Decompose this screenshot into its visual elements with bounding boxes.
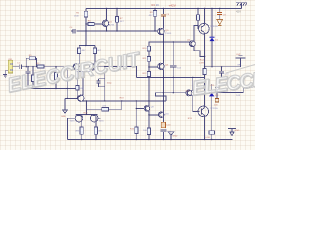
- output terminal bar: [235, 56, 245, 67]
- thermistor R21 below x217: [216, 92, 218, 98]
- transistor Q11 feedback: [78, 95, 84, 101]
- svg-text:10K: 10K: [143, 130, 147, 132]
- resistor R12: [147, 71, 150, 76]
- capacitor C4 stub left of x86: [71, 29, 86, 34]
- wire output node y66.8: [205, 66, 241, 68]
- svg-text:R18: R18: [120, 98, 125, 100]
- watermark stroke top right: [226, 65, 255, 74]
- svg-text:100p: 100p: [107, 83, 113, 85]
- diode D1 chain x212: [211, 9, 213, 67]
- transistor QR diff right: [89, 64, 95, 70]
- resistor R1 loop over input: [26, 58, 36, 66]
- ground flag left: [63, 98, 68, 113]
- svg-text:R12: R12: [142, 73, 147, 75]
- wire QA emitter column x149.7: [148, 115, 150, 140]
- wire base feed y24: [86, 23, 102, 25]
- watermark band A: [6, 48, 144, 97]
- wire x104.8 feedback column: [104, 67, 106, 101]
- svg-text:TIP2955: TIP2955: [210, 108, 219, 110]
- svg-text:R9: R9: [150, 12, 154, 14]
- svg-text:GND: GND: [61, 116, 66, 118]
- svg-text:C5: C5: [166, 14, 170, 16]
- capacitor C13 electrolytic body: [161, 122, 165, 128]
- svg-text:C1: C1: [17, 63, 21, 65]
- transistor QOL output left: [75, 114, 83, 122]
- resistor R3 series input: [37, 65, 44, 68]
- wire driver2 column x192.8: [193, 77, 200, 111]
- ground input connector: [3, 71, 8, 78]
- svg-text:0.5R: 0.5R: [205, 137, 210, 139]
- wire mid bias y42: [149, 41, 190, 43]
- svg-text:R14: R14: [200, 59, 205, 61]
- svg-text:Q5: Q5: [166, 30, 170, 32]
- svg-text:100: 100: [214, 104, 218, 106]
- svg-text:104: 104: [177, 68, 181, 70]
- svg-text:3055: 3055: [99, 120, 105, 122]
- resistor R4 shunt x56: [55, 67, 57, 89]
- transistor Q10 predriver: [158, 112, 164, 118]
- transistor Q1 current source: [102, 20, 108, 26]
- svg-text:A733: A733: [109, 24, 115, 27]
- wire diff tail: [77, 71, 90, 73]
- svg-text:100u: 100u: [168, 132, 174, 134]
- svg-text:C13: C13: [166, 125, 171, 127]
- transistor QOR output right: [90, 114, 98, 122]
- wire column x136.3: [135, 101, 137, 140]
- resistor R_R diff load right: [94, 46, 96, 65]
- svg-text:0R5: 0R5: [98, 131, 103, 133]
- resistor R6 horizontal: [88, 22, 94, 25]
- svg-text:R4: R4: [152, 3, 156, 7]
- ground flag bottom mid: [168, 132, 174, 140]
- capacitor C1 input: [20, 64, 74, 69]
- svg-text:56K: 56K: [80, 88, 84, 90]
- wire input: [13, 66, 19, 68]
- svg-text:42V: 42V: [236, 10, 241, 14]
- wire VAS collector/emitter column x163.4: [162, 42, 164, 122]
- wire jog y96.1: [155, 93, 166, 101]
- resistor R17 on x149.7: [147, 128, 150, 135]
- transistor Q4 power top: [199, 23, 210, 34]
- transistor Q8 power bottom: [198, 106, 209, 117]
- svg-text:Q10: Q10: [165, 114, 170, 116]
- transistor QL diff left: [73, 64, 79, 70]
- transistor Q2: [158, 28, 164, 34]
- svg-text:R5: R5: [76, 13, 80, 15]
- svg-text:R19: R19: [188, 118, 193, 120]
- diode D3 brown to ground: [217, 20, 223, 26]
- svg-text:Q3: Q3: [165, 64, 169, 66]
- svg-text:R7: R7: [120, 18, 124, 20]
- wire fb base y98.4: [65, 97, 78, 99]
- capacitor C7 100p loop: [97, 79, 105, 87]
- resistor R23 emitter right: [94, 127, 97, 134]
- resistor R14 emitter 0.47: [203, 69, 206, 75]
- resistor R_L diff load left: [78, 46, 80, 65]
- svg-text:C1815: C1815: [165, 33, 172, 35]
- wire left vertical x86 rail to diff pair: [85, 9, 87, 46]
- resistor R15 column x77.3: [76, 72, 78, 99]
- svg-text:10K: 10K: [236, 95, 240, 97]
- wire bias stub end x173.3 (see C8): [172, 92, 174, 94]
- resistor R11: [147, 56, 150, 61]
- svg-text:3055: 3055: [70, 120, 76, 122]
- svg-text:TIP3055: TIP3055: [210, 26, 219, 28]
- capacitor C2 shunt: [26, 67, 31, 89]
- svg-text:4K7: 4K7: [97, 50, 102, 52]
- svg-text:150K: 150K: [74, 16, 80, 18]
- resistor R8 chain x155: [154, 9, 156, 32]
- capacitor C11 x217: [216, 82, 218, 93]
- capacitor C14 plates: [160, 130, 166, 140]
- svg-text:OUT: OUT: [236, 54, 241, 56]
- power flag +42V top right: [236, 3, 247, 9]
- transistor Q6 driver top: [189, 41, 195, 47]
- transistor Q3 VAS: [158, 63, 164, 69]
- wire y77.4: [136, 76, 204, 78]
- svg-text:4K7: 4K7: [82, 50, 87, 52]
- wire VAS ladder x148.9: [148, 42, 150, 101]
- wire x67.3: [66, 67, 68, 99]
- resistor R22 emitter left: [80, 127, 83, 134]
- wire feedback jog x136.4: [105, 67, 137, 78]
- svg-text:ELECCIRC: ELECCIRC: [191, 65, 255, 100]
- wire top +V rail: [86, 8, 242, 10]
- wire VAS base stub: [149, 66, 158, 68]
- wire driver2 base y92.7: [155, 92, 186, 94]
- wire ground bus y88.5: [28, 88, 76, 90]
- svg-text:GND: GND: [235, 130, 240, 132]
- wire feedback lower loop: [86, 101, 121, 115]
- ground earth right: [228, 129, 236, 136]
- wire diff top y45.5: [79, 31, 95, 46]
- watermark band B: [191, 65, 286, 100]
- svg-text:D1: D1: [215, 40, 219, 42]
- svg-text:CN1: CN1: [8, 59, 13, 61]
- resistor R20 on x211.7: [209, 131, 215, 135]
- svg-text:4K7: 4K7: [149, 15, 154, 17]
- resistor R5 on x86: [84, 11, 87, 17]
- wire y100.9 main lower: [83, 100, 166, 102]
- LED D1 blue: [210, 37, 215, 41]
- input connector CN1: [8, 60, 12, 73]
- svg-text:Q9: Q9: [151, 107, 155, 109]
- capacitor C10 zobel: [221, 67, 223, 77]
- LED D2 blue: [209, 92, 214, 96]
- capacitor C5 chain x163.4: [162, 9, 164, 29]
- resistor R7 chain x117: [116, 9, 118, 32]
- svg-text:4K7: 4K7: [120, 21, 125, 23]
- wire feedback y92.4 right: [217, 87, 253, 92]
- svg-text:1K: 1K: [156, 3, 159, 7]
- transistor Q7 driver bottom: [186, 90, 192, 96]
- svg-text:0.5R: 0.5R: [199, 62, 204, 64]
- svg-text:R11: R11: [143, 58, 148, 60]
- wire y31 bus: [77, 30, 158, 32]
- resistor R16 on x136.3: [135, 127, 138, 134]
- svg-text:C9: C9: [223, 15, 227, 17]
- capacitor C8 bias x173.3: [172, 42, 174, 93]
- resistor R10: [147, 46, 150, 51]
- svg-text:GND: GND: [173, 136, 178, 138]
- svg-text:8R: 8R: [238, 64, 241, 66]
- svg-text:0R5: 0R5: [75, 131, 80, 133]
- svg-text:R16: R16: [130, 129, 135, 131]
- svg-text:Q1: Q1: [109, 22, 113, 24]
- resistor R2 shunt: [32, 67, 34, 89]
- resistor R13 top right x198: [197, 9, 200, 29]
- resistor R18 in loop: [102, 108, 109, 111]
- labels red: [8, 3, 241, 139]
- svg-text:R10: R10: [142, 48, 147, 50]
- wire bottom rail: [68, 139, 233, 141]
- diode D2 chain x211.7: [211, 84, 213, 140]
- wire QA base: [136, 108, 144, 110]
- svg-text:C4: C4: [70, 27, 74, 29]
- svg-text:22K: 22K: [102, 106, 106, 108]
- capacitor C9 chain x219.7: [219, 9, 221, 20]
- transistor Q9 predriver: [144, 106, 150, 112]
- svg-text:+42V: +42V: [169, 3, 177, 7]
- svg-text:ELECCIRCUIT: ELECCIRCUIT: [6, 48, 143, 97]
